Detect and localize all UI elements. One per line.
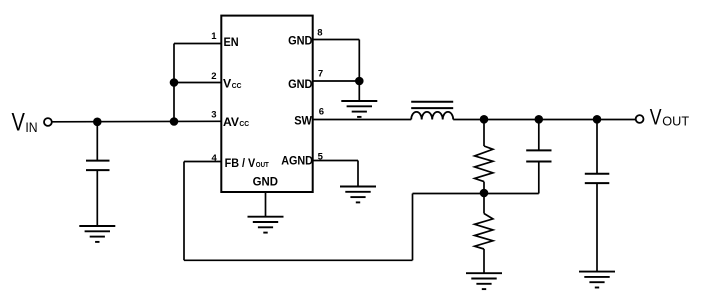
op-amp U1 (regulator IC body) <box>221 16 312 192</box>
resistor R2 <box>475 214 493 250</box>
svg-text:GND: GND <box>288 77 313 91</box>
wire FB bottom horizontal <box>184 259 413 261</box>
svg-text:SW: SW <box>294 113 312 127</box>
wire Cout bottom lead <box>596 183 598 272</box>
capacitor C_in <box>86 161 110 171</box>
node Cff top junction <box>535 115 544 124</box>
wire pin 7 stub <box>313 80 360 82</box>
wire Cff bottom lead <box>538 162 540 194</box>
capacitor C_ff <box>526 150 551 161</box>
wire pin 8 stub <box>313 39 360 41</box>
svg-text:7: 7 <box>318 69 323 80</box>
wire right bus pin8-pin7 <box>358 40 360 82</box>
wire pin 4 stub <box>184 161 221 163</box>
svg-text:CC: CC <box>239 119 249 128</box>
svg-text:8: 8 <box>317 28 322 39</box>
terminal VOUT <box>636 115 644 123</box>
svg-text:V: V <box>12 109 26 137</box>
svg-text:IN: IN <box>25 119 37 135</box>
node pin2 junction <box>170 78 179 87</box>
inductor L1 core bars <box>411 102 453 108</box>
ground (AGND) <box>340 187 376 203</box>
wire FB vertical down <box>183 162 185 261</box>
svg-text:6: 6 <box>319 106 324 117</box>
svg-text:AV: AV <box>223 115 239 129</box>
wire Cin to ground <box>96 170 98 226</box>
resistor R1 <box>475 146 493 182</box>
node input junction <box>93 118 102 127</box>
svg-text:V: V <box>650 104 662 129</box>
wire R1 top lead <box>483 120 485 147</box>
node R1 top junction <box>480 115 489 124</box>
ground (pins 7-8) <box>341 101 377 117</box>
terminal VIN <box>44 118 52 126</box>
wire VIN to pin 3 <box>52 120 222 123</box>
svg-text:CC: CC <box>232 81 242 90</box>
node FB junction <box>480 189 489 198</box>
wire Cff top lead <box>538 120 540 151</box>
svg-text:V: V <box>223 77 231 91</box>
wire pin 1 stub <box>174 43 221 45</box>
svg-text:GND: GND <box>253 174 279 188</box>
wire pin 5 stub <box>313 160 358 162</box>
svg-text:1: 1 <box>211 31 217 42</box>
inductor L1 coils <box>411 112 453 120</box>
wire R1 bottom lead <box>483 182 485 193</box>
svg-text:3: 3 <box>211 110 216 121</box>
wire FB vertical up <box>412 194 414 261</box>
node pin 7 junction <box>355 77 364 86</box>
wire pin7 ground stem <box>358 81 360 101</box>
wire FB node horizontal <box>413 193 539 195</box>
capacitor C_out <box>585 174 610 183</box>
ground (output cap) <box>579 272 615 288</box>
wire pin 2 stub <box>174 82 221 84</box>
wire inductor to VOUT terminal <box>453 119 636 121</box>
wire input node down to Cin <box>96 122 98 161</box>
node pin3 junction <box>170 117 179 126</box>
wire Cout top lead <box>596 120 598 174</box>
svg-text:FB / V: FB / V <box>225 156 256 170</box>
wire IC bottom ground stem <box>265 192 267 217</box>
wire R2 top lead <box>483 193 485 214</box>
svg-text:OUT: OUT <box>662 114 689 129</box>
ground (input cap) <box>79 226 115 242</box>
node Cout top junction <box>593 115 602 124</box>
svg-text:GND: GND <box>288 34 313 48</box>
ground (R2) <box>466 273 502 289</box>
ground (IC bottom) <box>248 217 284 233</box>
wire left bus pin1-pin3 <box>173 44 175 122</box>
svg-text:OUT: OUT <box>256 160 270 169</box>
wire AGND down <box>357 161 359 187</box>
wire SW rail to inductor <box>313 119 412 121</box>
svg-text:EN: EN <box>224 35 239 49</box>
wire R2 bottom lead <box>483 249 485 273</box>
svg-text:AGND: AGND <box>281 154 313 168</box>
svg-text:2: 2 <box>211 71 216 82</box>
